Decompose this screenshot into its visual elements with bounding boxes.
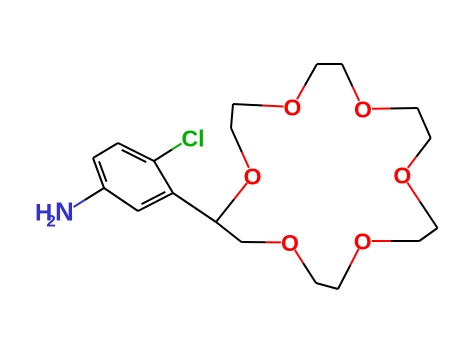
svg-text:O: O (393, 163, 411, 189)
svg-text:O: O (244, 164, 262, 190)
svg-text:H2N: H2N (35, 197, 74, 231)
svg-text:O: O (281, 230, 299, 256)
svg-text:O: O (354, 229, 372, 255)
svg-text:O: O (284, 95, 302, 121)
svg-text:O: O (354, 97, 372, 123)
svg-text:Cl: Cl (182, 126, 205, 152)
